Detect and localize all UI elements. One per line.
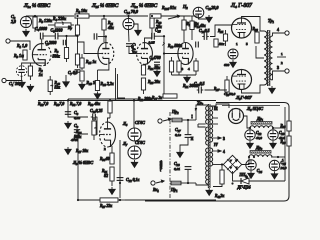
- label winding IV: [214, 143, 218, 147]
- label R19 500k: [167, 44, 182, 49]
- label tube V4 heading: [230, 3, 253, 9]
- arrow heater tap 1: [213, 137, 221, 139]
- label DG-Ts24: [237, 185, 251, 190]
- label Tr1: [268, 18, 275, 24]
- fuse Pr1: [171, 181, 181, 185]
- ground Tr1: [269, 86, 276, 94]
- svg-text:~сеть: ~сеть: [158, 160, 163, 171]
- resistor R23 cathode: [194, 58, 198, 75]
- label R38 7,0: [69, 102, 81, 107]
- ground below V7: [131, 160, 138, 168]
- label C1 30,0: [9, 81, 22, 87]
- resistor R12: [182, 16, 186, 42]
- pot arrow R19: [162, 42, 165, 46]
- label R13 value: [156, 25, 162, 29]
- svg-text:43к: 43к: [108, 26, 114, 30]
- svg-text:1: 1: [281, 52, 283, 56]
- label C28 value: [174, 167, 180, 172]
- resistor R3g 500k: [64, 36, 68, 62]
- svg-text:R24 50к: R24 50к: [147, 66, 160, 71]
- svg-text:C7 0,5: C7 0,5: [68, 71, 78, 76]
- svg-text:R3040: R3040: [99, 157, 109, 162]
- label R26b: [280, 140, 287, 145]
- capacitor C8: [65, 112, 71, 115]
- label tap 2: [281, 61, 283, 65]
- label R21 300k: [182, 83, 198, 89]
- wire V8 to Dr1: [244, 116, 251, 128]
- label C9: [74, 124, 79, 129]
- transformer Tr2 secondary section 1: [210, 106, 212, 142]
- svg-text:Л2а ½ 6Н8С: Л2а ½ 6Н8С: [130, 2, 158, 9]
- wire bridge left: [213, 164, 223, 166]
- label tap g: [195, 107, 197, 111]
- wire B+ top rail left: [26, 15, 74, 17]
- wire V5 anode to OT: [242, 85, 265, 93]
- svg-text:C100,25: C100,25: [90, 109, 102, 114]
- resistor R27g: [225, 76, 229, 96]
- label winding II: [191, 137, 194, 141]
- label R24 50k: [147, 66, 160, 71]
- ground V2b cathode: [184, 75, 191, 83]
- label C19 50,0: [224, 92, 236, 97]
- resistor R15: [80, 54, 84, 70]
- svg-text:C1320,0: C1320,0: [206, 5, 219, 11]
- output terminal 4: [285, 31, 289, 35]
- label C8: [74, 111, 79, 116]
- ground below C13: [206, 15, 213, 23]
- label C22 value: [256, 136, 262, 141]
- svg-text:R19 500к: R19 500к: [167, 44, 182, 49]
- wire C15 to grid: [154, 36, 178, 53]
- transformer Tr1 core: [268, 30, 270, 86]
- svg-text:R3 1м: R3 1м: [13, 53, 24, 59]
- ground below C24: [248, 171, 255, 179]
- capacitor C9: [74, 130, 80, 133]
- fuse Pr2: [172, 118, 182, 122]
- capacitor C12: [117, 178, 124, 181]
- wire C28 bottom: [187, 170, 189, 183]
- wire mains top to Tr2: [182, 119, 196, 121]
- wire bottom rail mid: [125, 199, 216, 201]
- ground below C2: [23, 29, 30, 37]
- label Pr2: [171, 109, 179, 115]
- svg-text:R7: R7: [67, 26, 72, 31]
- resistor R40 pot: [48, 76, 52, 95]
- label C4 1000: [35, 27, 47, 32]
- wire V1b anode: [104, 30, 106, 43]
- capacitor C5: [63, 40, 65, 46]
- wire Tr2 primary top lead: [196, 105, 208, 120]
- ground below R2: [27, 84, 34, 92]
- capacitor C8i: [94, 33, 97, 39]
- wire diode left: [233, 171, 242, 181]
- svg-text:R20 300к: R20 300к: [137, 97, 152, 102]
- label R26 20k: [147, 80, 160, 85]
- choke Dr1 winding: [250, 126, 273, 128]
- label C12 0,1k: [126, 178, 139, 183]
- label R33 7,0: [53, 102, 64, 107]
- svg-text:R5 120к: R5 120к: [38, 18, 52, 24]
- label R10b 51k: [161, 5, 176, 11]
- wire grid V4: [210, 25, 232, 37]
- svg-text:82: 82: [104, 174, 108, 178]
- wire C14 to rail: [128, 16, 130, 18]
- wire fb riser: [163, 54, 165, 97]
- wire V1a cathode: [22, 63, 46, 66]
- wire grid V1b feed: [78, 42, 99, 54]
- label V7: [122, 141, 128, 147]
- label R11 value: [108, 26, 114, 30]
- wire C11 gnd: [156, 66, 158, 70]
- svg-text:Л8 5Ц4С: Л8 5Ц4С: [246, 106, 263, 112]
- resistor R26: [141, 78, 145, 94]
- svg-text:3: 3: [182, 67, 184, 71]
- label PP1: [239, 173, 248, 178]
- wire Tr2 sec tap a: [213, 117, 218, 119]
- label C9 value: [71, 138, 78, 142]
- svg-text:3: 3: [223, 137, 225, 141]
- svg-text:R3: R3: [54, 49, 59, 54]
- wire C17 top: [187, 120, 189, 134]
- capacitor C18: [197, 87, 204, 94]
- svg-text:СГ4С: СГ4С: [135, 140, 145, 145]
- label R1 1,0: [16, 43, 27, 49]
- svg-text:Вк1: Вк1: [153, 187, 159, 193]
- transformer Tr2 primary section 1: [206, 106, 208, 124]
- label V8 heading: [246, 106, 263, 112]
- label V6 type: [135, 120, 145, 125]
- label R3g value: [53, 55, 61, 59]
- label R16 500k: [75, 130, 82, 135]
- wire rail to C13: [190, 15, 199, 17]
- svg-text:R10б 51к: R10б 51к: [161, 5, 176, 11]
- svg-text:C41000: C41000: [35, 27, 47, 32]
- wire to V2a grid: [129, 47, 137, 54]
- switch Vk1: [156, 180, 164, 183]
- arrow heater tap 2: [213, 150, 221, 152]
- svg-text:ПП1: ПП1: [239, 173, 248, 178]
- wire Tr1 primary centre tap: [256, 46, 264, 58]
- label R37 22k: [99, 204, 112, 209]
- wire B+ distribution rail: [38, 100, 216, 102]
- capacitor C22 electrolytic: [245, 130, 255, 140]
- ground Tr2 bottom: [206, 188, 213, 196]
- svg-text:II: II: [191, 137, 194, 141]
- svg-text:2,0: 2,0: [11, 20, 16, 25]
- transformer Tr2 primary section 3: [206, 148, 208, 184]
- capacitor C14 electrolytic: [123, 18, 134, 29]
- label R2 value: [39, 72, 43, 77]
- svg-text:R327,0: R327,0: [37, 102, 48, 107]
- label C11 4700: [150, 56, 161, 61]
- svg-text:III: III: [214, 107, 218, 111]
- wire bridge right: [242, 157, 249, 165]
- ground below C23: [270, 141, 277, 149]
- label terminal 1: [282, 158, 284, 162]
- label R11 43k: [107, 21, 114, 26]
- resistor R13a: [80, 71, 84, 81]
- svg-text:1к: 1к: [39, 72, 43, 77]
- label R3 1&#1084;: [13, 53, 24, 59]
- input terminal In2: [2, 78, 6, 82]
- label out 4: [277, 28, 279, 32]
- wire mains bottom to Tr2: [181, 182, 196, 184]
- svg-text:R39 43к: R39 43к: [87, 102, 100, 107]
- choke Dr2 winding: [249, 155, 272, 157]
- svg-text:Пр1: Пр1: [170, 187, 178, 193]
- pot arrow R16pot: [94, 127, 97, 129]
- svg-text:R422к: R422к: [214, 194, 224, 199]
- wire Dr2 out: [271, 156, 285, 158]
- wire Tr2 sec top to rect: [210, 104, 229, 108]
- ground below C3: [19, 80, 26, 88]
- ground R17c: [65, 147, 72, 155]
- transformer Tr2 secondary section 2: [210, 148, 212, 166]
- wire V2b cathode join: [172, 74, 197, 76]
- wire C13 gnd link: [199, 15, 210, 19]
- label tube V2a heading: [130, 2, 158, 9]
- label R17 2k: [151, 96, 162, 101]
- label tube V1a heading: [23, 2, 51, 9]
- label R4 220k: [52, 16, 66, 22]
- wire R16a top link: [98, 64, 109, 70]
- svg-text:R37 22к: R37 22к: [99, 204, 112, 209]
- wire Tr1 secondary top: [273, 33, 286, 36]
- wire B+ top rail mid: [89, 15, 148, 17]
- output terminal 3: [285, 69, 289, 73]
- wire C14 side gnd: [133, 24, 138, 28]
- label C17 0,1: [175, 128, 181, 133]
- svg-text:51к: 51к: [219, 42, 225, 46]
- svg-text:C12 0,1к: C12 0,1к: [126, 178, 139, 183]
- choke Dr2 core: [250, 151, 271, 154]
- svg-text:4: 4: [223, 150, 225, 154]
- svg-text:20,0: 20,0: [281, 166, 287, 171]
- svg-text:Л4 Г-807: Л4 Г-807: [230, 3, 253, 9]
- label pin2 V3: [104, 147, 106, 151]
- label R42 2k: [214, 194, 224, 199]
- label R24 value: [224, 63, 230, 67]
- rectifier tube V8 5Ts4S: [229, 109, 244, 124]
- svg-text:680: 680: [224, 63, 230, 67]
- capacitor C20 electrolytic: [228, 49, 238, 59]
- resistor R19 grid: [169, 57, 173, 75]
- svg-text:R8 10к: R8 10к: [75, 8, 87, 14]
- label C2 value: [11, 20, 16, 25]
- wire interstage riser a: [115, 68, 117, 101]
- resistor R11: [102, 16, 106, 42]
- wire C10 to V3 grid: [96, 117, 98, 135]
- transformer Tr2 primary section 2: [206, 127, 208, 145]
- svg-text:R25: R25: [217, 29, 224, 34]
- label pin4 V2b: [188, 67, 190, 71]
- capacitor C16rot: [126, 44, 132, 47]
- svg-text:R16 2,2к: R16 2,2к: [100, 82, 114, 87]
- label R25 100k: [217, 29, 224, 34]
- label C25 value: [281, 166, 287, 171]
- wire Tr1 secondary bottom: [273, 71, 286, 80]
- wire C8i link: [98, 36, 104, 38]
- label C24 20,0: [257, 169, 263, 174]
- triode V1b: [98, 43, 114, 65]
- label tap 3: [223, 137, 225, 141]
- label R14 43k: [194, 24, 206, 29]
- transformer Tr1 secondary winding: [270, 36, 273, 80]
- svg-text:C160,5: C160,5: [131, 43, 136, 53]
- label C25 20,0: [281, 161, 287, 166]
- capacitor C13 electrolytic: [193, 7, 204, 18]
- wire input2: [6, 76, 22, 80]
- power tube V5 G-807: [232, 70, 252, 90]
- label pin5 V4: [246, 42, 248, 46]
- label V3 heading: [72, 160, 93, 166]
- wire C14 down: [128, 30, 131, 42]
- svg-text:4: 4: [277, 28, 279, 32]
- wire Tr2 primary bottom lead: [196, 183, 208, 185]
- wire bus to V3: [68, 99, 88, 117]
- svg-text:0,05: 0,05: [74, 116, 80, 121]
- label tap 4: [223, 150, 225, 154]
- capacitor C25 electrolytic: [269, 160, 279, 170]
- label P2 switch: [182, 4, 188, 10]
- label pin3 V2b: [182, 67, 184, 71]
- label R39 43k: [87, 102, 100, 107]
- svg-text:3: 3: [277, 66, 279, 70]
- resistor R39b: [108, 100, 112, 118]
- wire C6 to R7 column: [58, 35, 78, 37]
- ground below C25: [271, 172, 278, 180]
- label R12 43k: [186, 22, 199, 27]
- label R25b: [280, 124, 287, 129]
- svg-text:C9: C9: [74, 124, 79, 129]
- resistor R37: [78, 198, 125, 202]
- wire V4 anode to OT: [242, 17, 265, 32]
- transformer Tr1 primary winding: [264, 31, 267, 85]
- capacitor C6: [55, 33, 58, 40]
- diode PP1 DG-Ts24: [241, 178, 249, 184]
- label C23 40,0: [279, 131, 285, 136]
- svg-text:2: 2: [281, 61, 283, 65]
- svg-text:СГ4С: СГ4С: [135, 120, 145, 125]
- resistor R24 680: [255, 32, 259, 43]
- svg-text:R27: R27: [213, 87, 220, 92]
- triode V1a: [32, 44, 51, 66]
- svg-text:C1950,0: C1950,0: [224, 92, 236, 97]
- svg-text:2: 2: [104, 147, 106, 151]
- label tap 2: [246, 175, 248, 179]
- svg-text:ДГ-Ц24: ДГ-Ц24: [237, 185, 251, 190]
- label C17 value: [175, 133, 181, 138]
- label Vk1: [153, 187, 159, 193]
- power unit enclosure: [145, 103, 289, 202]
- capacitor C2 electrolytic: [20, 16, 31, 27]
- label C28 0,01: [174, 162, 180, 167]
- svg-text:C1′ 30,0: C1′ 30,0: [9, 81, 22, 87]
- label Tr2: [197, 100, 204, 106]
- svg-text:R28: R28: [252, 27, 259, 32]
- svg-text:R1 1,0: R1 1,0: [16, 43, 27, 49]
- triode V2b: [178, 43, 193, 65]
- svg-text:C61000: C61000: [51, 29, 63, 34]
- ground below R31: [109, 187, 116, 195]
- svg-text:Л3 ½ 6Н8С: Л3 ½ 6Н8С: [72, 160, 93, 166]
- resistor R24a: [141, 65, 145, 75]
- choke Dr1 core: [251, 122, 272, 125]
- pot arrow R40: [50, 85, 53, 87]
- switch P2: [168, 15, 180, 19]
- label C14 70,0: [124, 9, 138, 15]
- resistor R8: [75, 14, 89, 18]
- wire stab chain top: [133, 100, 135, 128]
- wire V3 cathode down: [119, 140, 121, 198]
- label C16rot: [131, 43, 136, 53]
- capacitor C4: [40, 33, 43, 40]
- power unit inner shelf: [222, 106, 285, 182]
- svg-text:Др2: Др2: [255, 145, 263, 151]
- label R15 1k: [85, 60, 96, 65]
- capacitor C10: [91, 114, 98, 120]
- label C18 0,5: [194, 82, 205, 87]
- triode V3 phase splitter: [100, 122, 116, 147]
- capacitor C1prime dashed envelope: [16, 66, 26, 76]
- wire diode right: [249, 180, 285, 182]
- resistor R14: [190, 16, 194, 40]
- label C22 40,0: [256, 131, 262, 136]
- ground below C20: [230, 60, 237, 68]
- svg-text:C14 70,0: C14 70,0: [124, 9, 138, 15]
- svg-text:Л1б ½ 6Н8С: Л1б ½ 6Н8С: [91, 2, 119, 9]
- label tap 1: [281, 52, 283, 56]
- ground below R16a: [94, 92, 101, 100]
- ground below R13: [79, 82, 86, 90]
- svg-text:1: 1: [282, 158, 284, 162]
- label mains ~set: [158, 160, 163, 171]
- wire feedback riser: [78, 134, 88, 200]
- svg-text:1: 1: [236, 42, 238, 46]
- label R25 value: [219, 42, 225, 46]
- resistor R4 pot: [48, 23, 74, 27]
- svg-text:Пр2: Пр2: [171, 109, 179, 115]
- svg-text:Тр1: Тр1: [268, 18, 275, 24]
- ground below C17: [177, 150, 184, 158]
- label C2 2,0: [11, 14, 16, 20]
- label R20 300k: [137, 97, 152, 102]
- svg-text:П2: П2: [182, 4, 188, 10]
- resistor R22 cathode: [177, 61, 181, 75]
- label R13 20k: [155, 20, 162, 25]
- ground below C14: [135, 28, 142, 36]
- svg-text:R337,0: R337,0: [53, 102, 64, 107]
- transformer Tr2 core: [208, 104, 210, 188]
- svg-text:C15: C15: [155, 29, 161, 34]
- triode V2a: [137, 43, 153, 65]
- svg-text:C160,5: C160,5: [199, 29, 210, 34]
- wire C17 gnd: [180, 138, 188, 150]
- gas stabiliser V7 SG4S: [128, 146, 141, 159]
- fuse Pr2 arrow: [163, 118, 171, 121]
- label winding III: [214, 107, 218, 111]
- resistor R13b: [150, 16, 154, 34]
- label V6: [122, 121, 128, 127]
- wire R39 to V3 anode: [108, 118, 111, 122]
- pot arrow R4: [61, 21, 63, 25]
- capacitor C17: [185, 135, 192, 138]
- resistor R9: [75, 42, 79, 68]
- wire R42 bottom: [213, 184, 222, 187]
- svg-text:4: 4: [188, 67, 190, 71]
- wire Tr2 primary tap a: [198, 123, 206, 125]
- wire V2a anode: [145, 34, 153, 43]
